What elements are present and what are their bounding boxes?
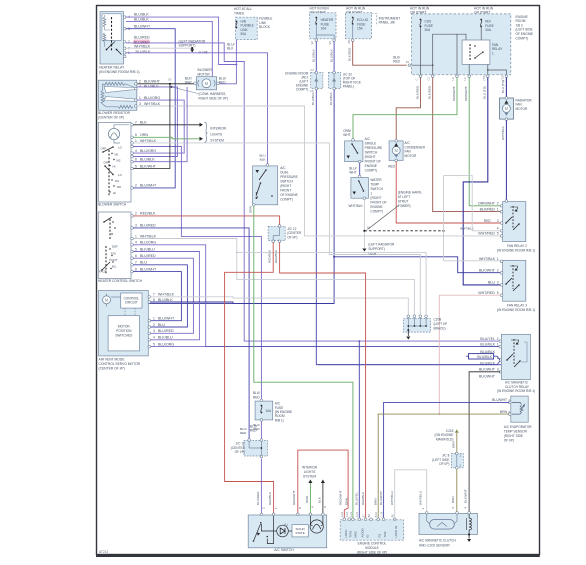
- J/B2 internal bus: [412, 64, 433, 66]
- svg-text:WHT/RED: WHT/RED: [478, 232, 495, 236]
- wire BLU J/B2 to fan relay 3: [463, 77, 501, 285]
- svg-text:COMPT): COMPT): [365, 168, 378, 172]
- svg-text:BLU/BLK: BLU/BLK: [144, 84, 159, 88]
- svg-text:(T3): (T3): [482, 75, 486, 80]
- svg-text:HEATER CONTROL SWITCH: HEATER CONTROL SWITCH: [98, 279, 143, 283]
- heater relay: [100, 12, 124, 64]
- svg-text:BRN: BRN: [452, 441, 456, 448]
- svg-text:M2: M2: [117, 185, 121, 189]
- svg-text:MGC: MGC: [353, 531, 357, 538]
- wire BLU/BLK J/C32 down to clutch relay: [316, 90, 501, 365]
- svg-text:SINGLE: SINGLE: [365, 141, 377, 145]
- svg-text:ENGINE: ENGINE: [370, 205, 382, 209]
- svg-text:BRN: BRN: [373, 498, 377, 505]
- svg-text:BLU/WHT: BLU/WHT: [492, 398, 507, 402]
- junction S4: [363, 230, 365, 232]
- svg-text:A-13: A-13: [345, 511, 349, 517]
- wire BLK/RED J/B2 to fan relay 2: [433, 77, 502, 211]
- svg-text:RED/WHT: RED/WHT: [339, 490, 343, 505]
- wire ORN A/C switch to interior lights: [309, 483, 311, 514]
- WHT/BLK bridge to fan relay 2: [444, 176, 502, 231]
- svg-text:RED/BLK: RED/BLK: [268, 491, 272, 505]
- svg-text:BLU/YEL: BLU/YEL: [480, 337, 495, 341]
- ground G108 left radiator support: [191, 47, 193, 49]
- A/C switch bulb: [310, 520, 323, 533]
- svg-text:RED/BLK: RED/BLK: [361, 491, 365, 505]
- svg-text:OR START: OR START: [474, 11, 490, 15]
- svg-text:BLK/WHT: BLK/WHT: [144, 80, 161, 84]
- svg-text:THR: THR: [383, 532, 387, 538]
- svg-text:E7: E7: [362, 514, 366, 518]
- svg-text:BLU/BLK: BLU/BLK: [134, 13, 149, 17]
- svg-text:RED: RED: [253, 395, 260, 399]
- svg-text:SYSTEM: SYSTEM: [210, 139, 224, 143]
- svg-text:6: 6: [135, 133, 137, 137]
- motor position switches box: [108, 316, 139, 351]
- wire BLU/RED A/C fuse to J/C12: [260, 421, 262, 440]
- svg-text:STRUT: STRUT: [398, 199, 409, 203]
- svg-text:1: 1: [274, 507, 278, 509]
- svg-text:BLK/WHT: BLK/WHT: [479, 374, 496, 378]
- svg-text:TEMP SENSOR: TEMP SENSOR: [504, 430, 528, 434]
- svg-text:6: 6: [135, 158, 137, 162]
- svg-text:RED: RED: [240, 431, 247, 435]
- svg-text:ORN: ORN: [249, 206, 253, 213]
- svg-text:5: 5: [135, 247, 137, 251]
- wire WHT/BLK net to fan relay 3: [444, 176, 502, 261]
- wire BLU/ORG resistor pin1 to blower switch: [131, 100, 184, 153]
- wire RED/BLK J/C12 left loop to A/C switch: [225, 242, 274, 513]
- svg-text:LIGHTS: LIGHTS: [210, 133, 223, 137]
- svg-text:(IN ENGINE ROOM R/B 1): (IN ENGINE ROOM R/B 1): [497, 248, 535, 252]
- svg-text:BLU/RED: BLU/RED: [140, 254, 156, 258]
- svg-text:MOTOR: MOTOR: [198, 72, 211, 76]
- dual pressure switch contacts: [265, 169, 267, 171]
- svg-text:4: 4: [497, 227, 499, 231]
- svg-text:BLK/BLU: BLK/BLU: [158, 336, 173, 340]
- wire BLU heater control to servo: [133, 265, 187, 327]
- J/B2 bottom pins: [419, 75, 422, 78]
- fan relay 2 pins: [500, 205, 503, 208]
- svg-text:BLU/WHT: BLU/WHT: [379, 491, 383, 505]
- wire BLU/BLK resistor pin4 to blower switch: [131, 87, 177, 157]
- wire BRN C218 to J/C8: [456, 433, 458, 453]
- svg-text:3: 3: [323, 506, 327, 508]
- svg-text:2: 2: [262, 507, 266, 509]
- fan relay 2 contacts: [512, 206, 514, 228]
- svg-text:1: 1: [497, 257, 499, 261]
- svg-text:BLU/WHT: BLU/WHT: [134, 25, 151, 29]
- svg-text:(CENTER OF I/P): (CENTER OF I/P): [99, 367, 125, 371]
- boxed BLU/BLK label: [469, 354, 494, 359]
- svg-text:3: 3: [153, 329, 155, 333]
- svg-text:2: 2: [128, 40, 130, 44]
- svg-text:BLU/ORG: BLU/ORG: [158, 342, 174, 346]
- svg-text:M: M: [505, 106, 509, 111]
- junction S5: [169, 83, 171, 85]
- svg-text:3: 3: [139, 102, 141, 106]
- svg-text:2: 2: [497, 202, 499, 206]
- svg-text:F6: F6: [406, 60, 410, 64]
- border frame: [97, 6, 540, 555]
- svg-text:MOTOR: MOTOR: [118, 325, 131, 329]
- svg-text:DUAL: DUAL: [280, 170, 289, 174]
- svg-text:SWITCHES: SWITCHES: [115, 334, 132, 338]
- svg-text:BLU/BLK: BLU/BLK: [140, 158, 155, 162]
- svg-text:5: 5: [298, 507, 302, 509]
- svg-text:BLK/RED: BLK/RED: [415, 85, 419, 99]
- svg-text:HI: HI: [113, 191, 116, 195]
- CDS fuse: [420, 19, 422, 21]
- lock sensor ground: [468, 533, 470, 535]
- svg-text:15A: 15A: [357, 27, 364, 31]
- svg-text:2: 2: [139, 80, 141, 84]
- svg-text:1: 1: [508, 398, 510, 402]
- heater control switch pins: [131, 215, 134, 218]
- svg-text:WHT/BLK: WHT/BLK: [501, 125, 505, 140]
- wire BLU/WHT single pressure to water temp switch: [359, 163, 361, 177]
- svg-text:CIRCUIT: CIRCUIT: [125, 300, 138, 304]
- blower switch pins: [131, 124, 134, 127]
- svg-text:A9: A9: [347, 40, 351, 44]
- svg-text:BRACE): BRACE): [434, 326, 446, 330]
- svg-text:4: 4: [153, 336, 155, 340]
- svg-text:AT LEFT: AT LEFT: [398, 195, 411, 199]
- wire WHT/BLK C208 pin4 west link: [237, 252, 426, 315]
- servo motor circle: [103, 296, 111, 304]
- svg-text:TEMP: TEMP: [370, 182, 379, 186]
- svg-text:BLU/YEL: BLU/YEL: [355, 492, 359, 505]
- svg-text:C208: C208: [434, 318, 442, 322]
- J/C 32 connector right: [329, 73, 341, 89]
- radiator fan motor: [500, 98, 514, 119]
- svg-text:A-16: A-16: [340, 511, 344, 517]
- svg-text:BLOWER SWITCH: BLOWER SWITCH: [98, 203, 127, 207]
- svg-text:LOCK IN: LOCK IN: [394, 526, 398, 538]
- svg-text:RIGHT SIDE OF I/P): RIGHT SIDE OF I/P): [199, 97, 228, 101]
- svg-text:BLU/BLK: BLU/BLK: [158, 298, 173, 302]
- illumination bulb heater panel: [108, 128, 119, 139]
- svg-text:2: 2: [135, 184, 137, 188]
- svg-text:BRN: BRN: [500, 410, 508, 414]
- svg-text:ENGINE CONTROL: ENGINE CONTROL: [358, 542, 387, 546]
- svg-text:(RIGHT SIDE: (RIGHT SIDE: [504, 434, 523, 438]
- wire BLU/RED heater control to servo: [133, 258, 193, 333]
- A/C magnetic clutch relay: [501, 334, 530, 379]
- wire BLU/BLK relay pin4 branch to blower motor top: [126, 21, 212, 76]
- svg-text:A/C MAGNETIC CLUTCH: A/C MAGNETIC CLUTCH: [419, 539, 457, 543]
- svg-text:COMPT): COMPT): [280, 197, 293, 201]
- svg-text:OF I/P): OF I/P): [504, 438, 514, 442]
- svg-text:L3: L3: [451, 77, 455, 80]
- svg-text:SWITCH: SWITCH: [370, 187, 383, 191]
- svg-text:(T3): (T3): [500, 75, 504, 80]
- svg-text:B6: B6: [367, 514, 371, 518]
- heater relay pins: [123, 16, 126, 19]
- svg-text:BLU/BLK: BLU/BLK: [480, 342, 495, 346]
- svg-text:ORN: ORN: [305, 496, 309, 503]
- svg-text:RED: RED: [393, 60, 400, 64]
- svg-text:FRONT OF: FRONT OF: [365, 159, 381, 163]
- svg-text:AIR VENT MODE: AIR VENT MODE: [99, 357, 126, 361]
- highlighted BLU/RED label: [133, 40, 150, 45]
- svg-text:(RIGHT: (RIGHT: [365, 155, 376, 159]
- svg-text:(LEFT RADIATOR: (LEFT RADIATOR: [368, 243, 395, 247]
- fan relay 1: [462, 40, 490, 64]
- svg-text:1: 1: [370, 191, 372, 195]
- svg-text:1: 1: [135, 139, 137, 143]
- svg-text:1: 1: [421, 508, 425, 510]
- heater control switch contacts: [109, 219, 111, 240]
- wire BRN J/C8 to lock sensor: [456, 469, 458, 512]
- svg-text:(IN ENGINE ROOM R/B 1): (IN ENGINE ROOM R/B 1): [99, 70, 140, 74]
- svg-text:HI: HI: [113, 165, 116, 169]
- wire WHT/BLK servo to C208: [151, 297, 409, 315]
- svg-text:BLU/WHT: BLU/WHT: [158, 317, 175, 321]
- svg-text:3: 3: [497, 368, 499, 372]
- heater fuse bottom pins: [315, 39, 318, 42]
- wire BLK blower switch to interior lights: [133, 124, 199, 126]
- wire BLU/BLK heater fuse to J/C32: [315, 41, 317, 71]
- junction fusible link / motor feed: [235, 64, 237, 66]
- svg-text:DEF: DEF: [112, 245, 118, 249]
- svg-text:A-21: A-21: [349, 511, 353, 517]
- svg-text:AND LOCK SENSOR: AND LOCK SENSOR: [419, 543, 450, 547]
- svg-text:C1: C1: [427, 77, 431, 81]
- blower resistor pins: [135, 83, 138, 86]
- A/C switch pins: [260, 513, 263, 516]
- svg-text:2: 2: [497, 269, 499, 273]
- heater fuse box: [310, 13, 336, 39]
- svg-text:ORN/WHT: ORN/WHT: [452, 86, 456, 101]
- C218 arrow: [455, 429, 459, 433]
- wire blower motor junction to blower switch: [131, 84, 170, 169]
- solid state box: [292, 525, 308, 537]
- svg-text:ORN/WHT: ORN/WHT: [464, 86, 468, 101]
- svg-text:BLK/WHT: BLK/WHT: [140, 164, 157, 168]
- junction on BLU/BLK row: [170, 86, 172, 88]
- svg-text:POSITION: POSITION: [116, 329, 132, 333]
- svg-text:WHT/BLK: WHT/BLK: [349, 204, 364, 208]
- svg-text:5: 5: [497, 291, 499, 295]
- svg-text:3: 3: [135, 224, 137, 228]
- svg-text:WHT/RED: WHT/RED: [478, 291, 495, 295]
- svg-text:BLU/RED: BLU/RED: [158, 329, 174, 333]
- svg-text:3: 3: [497, 281, 499, 285]
- svg-text:M1: M1: [115, 179, 119, 183]
- svg-text:(IN ENGINE ROOM R/B 1): (IN ENGINE ROOM R/B 1): [497, 389, 535, 393]
- svg-text:INTERIOR: INTERIOR: [302, 466, 318, 470]
- svg-text:RED: RED: [388, 165, 395, 169]
- svg-text:L4: L4: [463, 77, 467, 80]
- svg-text:BRN: BRN: [451, 496, 455, 503]
- svg-text:BLK/RED: BLK/RED: [348, 47, 352, 61]
- wire BLK/WHT blower switch up: [133, 87, 187, 162]
- wire BLK A/C switch to interior lights: [322, 483, 324, 514]
- svg-text:C-13: C-13: [380, 511, 384, 517]
- svg-text:8: 8: [135, 267, 137, 271]
- svg-text:TIMES: TIMES: [234, 11, 245, 15]
- svg-text:BLOCK: BLOCK: [259, 25, 271, 29]
- wire RED/BLK J/C12 right to ECM: [280, 242, 366, 519]
- svg-text:BLU/WHT: BLU/WHT: [140, 267, 157, 271]
- wire WHT/BLK radiator fan motor to fan relay 2: [505, 120, 507, 201]
- A/C switch contacts: [254, 524, 261, 541]
- svg-text:WHT: WHT: [343, 133, 350, 137]
- svg-text:2: 2: [451, 507, 455, 509]
- svg-text:AT213: AT213: [99, 550, 108, 554]
- svg-text:BLU/ORG: BLU/ORG: [140, 149, 156, 153]
- svg-text:1: 1: [459, 464, 461, 468]
- wire BLK/RED ECU-IG fuse to engine room J/B2: [353, 41, 407, 65]
- svg-text:6: 6: [135, 254, 137, 258]
- wire WHT/BLK water temp switch to ground S4: [363, 199, 365, 248]
- svg-text:WATER: WATER: [370, 178, 382, 182]
- svg-text:A/CON: A/CON: [360, 528, 364, 537]
- svg-text:RED/BLK: RED/BLK: [140, 212, 156, 216]
- svg-text:1: 1: [497, 342, 499, 346]
- svg-text:C: C: [415, 79, 419, 81]
- svg-text:7: 7: [153, 293, 155, 297]
- heater control switch: [98, 212, 131, 279]
- svg-text:RED/WHT: RED/WHT: [292, 490, 296, 505]
- svg-text:BLU: BLU: [140, 261, 147, 265]
- svg-text:BLU/RED: BLU/RED: [140, 224, 156, 228]
- svg-text:2: 2: [497, 337, 499, 341]
- blower switch contacts: [108, 150, 110, 196]
- svg-text:B-10: B-10: [374, 511, 378, 517]
- svg-text:ORN/WHT: ORN/WHT: [478, 202, 496, 206]
- svg-text:PANEL J/B: PANEL J/B: [379, 21, 396, 25]
- svg-text:7: 7: [135, 121, 137, 125]
- A/C single pressure switch: [345, 141, 363, 162]
- single pressure switch contacts: [351, 143, 353, 145]
- svg-text:A/C: A/C: [280, 166, 286, 170]
- wire BLU/BLK J/C32 right down to servo and fan relay 3: [149, 90, 335, 304]
- A/C condenser fan motor: [389, 141, 403, 161]
- svg-text:FRONT: FRONT: [280, 188, 291, 192]
- A/C fuse: [255, 401, 273, 420]
- water temp switch 1: [351, 178, 369, 199]
- svg-text:BLK/RED: BLK/RED: [428, 85, 432, 99]
- svg-text:1: 1: [459, 454, 461, 458]
- svg-text:BLU/RED: BLU/RED: [134, 36, 150, 40]
- wire BLU/RED blower switch to A/C fuse: [133, 147, 261, 402]
- svg-text:FRONT OF: FRONT OF: [370, 200, 386, 204]
- wire ORN dual pressure switch to ECM: [254, 206, 353, 519]
- svg-text:1: 1: [139, 96, 141, 100]
- engine control module: [340, 520, 404, 540]
- wire RED/BLK heater control to J/C12: [133, 216, 279, 225]
- engine room J/B 2 box: [412, 14, 511, 75]
- svg-text:K2: K2: [311, 68, 315, 72]
- wire BLK/RED J/B2 to condenser fan motor: [396, 77, 420, 139]
- wire RED/WHT A/C switch to ECM: [298, 450, 348, 519]
- blower switch: [98, 122, 131, 202]
- wire WHT/RED fan relay 3 west: [439, 295, 501, 414]
- blower motor: [196, 77, 216, 90]
- svg-text:COMPT): COMPT): [370, 209, 383, 213]
- svg-text:ORN: ORN: [140, 133, 148, 137]
- clutch coil: [468, 514, 470, 518]
- svg-text:MANIFOLD): MANIFOLD): [436, 437, 454, 441]
- svg-text:4: 4: [135, 241, 137, 245]
- dashed link S4 to WHT/BLK net: [364, 230, 443, 232]
- svg-text:4: 4: [135, 149, 137, 153]
- wire BLU/RED heater control to J/C12 lower: [133, 228, 249, 440]
- svg-text:BLU/BLK: BLU/BLK: [311, 91, 315, 105]
- svg-text:BLK/BLU: BLK/BLU: [140, 247, 155, 251]
- svg-text:BLU/RED: BLU/RED: [256, 491, 260, 505]
- wire ORN/WHT J/B2 to single pressure switch: [353, 77, 457, 139]
- svg-text:4: 4: [139, 84, 141, 88]
- svg-text:A-15: A-15: [355, 511, 359, 517]
- svg-text:BLK: BLK: [317, 496, 321, 503]
- interior lights bracket: [205, 122, 208, 143]
- air vent mode control servo motor: [99, 291, 149, 356]
- svg-text:RED: RED: [253, 427, 260, 431]
- svg-text:BLU/ORG: BLU/ORG: [140, 241, 156, 245]
- svg-text:A/C EVAPORATOR: A/C EVAPORATOR: [504, 425, 533, 429]
- ground G108 second: [362, 249, 366, 252]
- svg-text:OF ENGINE: OF ENGINE: [280, 193, 298, 197]
- wire jog into pin 5: [466, 355, 469, 357]
- wire BLK/WHT blower resistor to blower motor: [137, 83, 194, 85]
- svg-text:COMPT): COMPT): [516, 36, 529, 40]
- blower resistor: [98, 80, 137, 110]
- svg-text:OF I/P): OF I/P): [439, 462, 449, 466]
- svg-text:LIGHTS: LIGHTS: [304, 470, 316, 474]
- svg-text:WHT/BLK: WHT/BLK: [479, 257, 496, 261]
- svg-text:2: 2: [508, 410, 510, 414]
- svg-text:SUPPORT): SUPPORT): [179, 44, 196, 48]
- junction and branch to fan relay 3: [333, 256, 335, 258]
- wire BRN evap sensor to ECM: [378, 414, 509, 519]
- svg-text:OR START: OR START: [410, 11, 426, 15]
- svg-text:SUPPORT): SUPPORT): [368, 247, 384, 251]
- svg-text:M: M: [105, 297, 109, 302]
- svg-text:30A: 30A: [485, 28, 492, 32]
- svg-text:3: 3: [497, 219, 499, 223]
- svg-text:CONTROL SERVO MOTOR: CONTROL SERVO MOTOR: [99, 362, 141, 366]
- fan relay 3: [503, 260, 526, 301]
- svg-text:WHT/BLK: WHT/BLK: [144, 102, 161, 106]
- svg-text:PRESSURE: PRESSURE: [280, 175, 298, 179]
- svg-text:10A: 10A: [321, 27, 328, 31]
- svg-text:(RIGHT: (RIGHT: [370, 196, 381, 200]
- ECU-IG fuse box: [346, 13, 372, 39]
- J/C 12 connector lower: [244, 441, 268, 457]
- svg-text:BLU/BLK: BLU/BLK: [477, 355, 492, 359]
- svg-text:ORN: ORN: [344, 498, 348, 505]
- svg-text:V5: V5: [328, 41, 332, 45]
- svg-text:7: 7: [135, 261, 137, 265]
- ECU-IG fuse bottom pin: [351, 39, 354, 42]
- wire BLU/BLK relay pin1 to dual pressure switch: [126, 53, 268, 164]
- svg-text:2: 2: [135, 212, 137, 216]
- wire BLU/ORG servo row continues to magnetic clutch relay: [206, 346, 502, 348]
- ECM pins: [343, 518, 346, 521]
- control circuit box: [121, 293, 142, 308]
- svg-text:RED/BLK: RED/BLK: [268, 249, 272, 263]
- svg-text:30A: 30A: [425, 28, 432, 32]
- svg-text:F/D: F/D: [111, 251, 116, 255]
- svg-text:WHT/BLK: WHT/BLK: [140, 139, 157, 143]
- svg-text:THW: THW: [349, 531, 353, 538]
- svg-text:ENGINE: ENGINE: [365, 164, 377, 168]
- fan relay 3 pins: [500, 260, 503, 263]
- wire BLU/YEL to ECM: [358, 341, 360, 519]
